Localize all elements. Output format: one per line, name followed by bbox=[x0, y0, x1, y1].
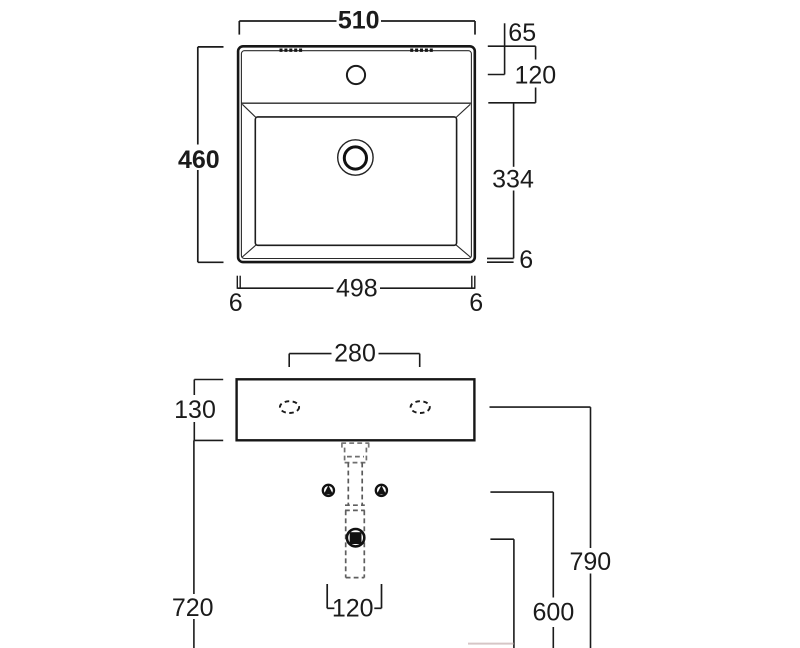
drain pipe upper (dashed) bbox=[348, 463, 362, 505]
dimension 334 (bowl depth) bbox=[492, 103, 534, 259]
svg-text:498: 498 bbox=[336, 274, 378, 302]
basin front outline bbox=[237, 379, 475, 440]
dimension 6 (right wall) bbox=[487, 246, 533, 274]
reference line at mounting holes level bbox=[490, 406, 591, 408]
mounting hole right (dashed) bbox=[411, 401, 430, 413]
dimension 510 (top width) bbox=[239, 6, 475, 34]
dimension 790 (height of rim) bbox=[569, 407, 611, 648]
drain outer circle bbox=[338, 140, 373, 175]
drain tailpiece flange (dashed) bbox=[341, 443, 369, 448]
bowl corner diagonal bottom-right bbox=[456, 245, 471, 257]
basin outer rim (top view) bbox=[238, 46, 475, 262]
hidden tap hole dashes right bbox=[410, 49, 433, 52]
svg-text:460: 460 bbox=[178, 146, 220, 174]
drain level vertical line bbox=[513, 539, 515, 648]
dimension 120 (outlet width brackets) bbox=[327, 584, 381, 622]
svg-text:334: 334 bbox=[492, 165, 534, 193]
bowl corner diagonal bottom-left bbox=[242, 245, 256, 257]
reference line at drain level bbox=[490, 538, 514, 540]
bowl corner diagonal top-left bbox=[242, 104, 256, 118]
drain pipe lower (dashed) bbox=[345, 505, 365, 577]
svg-text:600: 600 bbox=[533, 598, 575, 626]
svg-text:790: 790 bbox=[569, 548, 611, 576]
basin inner rim line bbox=[241, 51, 471, 259]
dimension 65 (faucet offset) bbox=[488, 19, 536, 74]
wall fixing symbol left (circle+triangle) bbox=[323, 485, 334, 496]
label 6 (right wall, below 498 line) bbox=[469, 289, 483, 317]
svg-text:65: 65 bbox=[508, 19, 536, 47]
mounting hole left (dashed) bbox=[280, 401, 299, 413]
hidden tap hole dashes left bbox=[280, 49, 303, 52]
dimension 460 (left depth) bbox=[178, 47, 224, 262]
svg-text:6: 6 bbox=[229, 289, 243, 317]
dimension 280 (hole spacing) bbox=[289, 340, 420, 368]
label 6 (left wall, below 498 line) bbox=[229, 289, 243, 317]
svg-text:6: 6 bbox=[469, 289, 483, 317]
drain outlet dot (circle+square) bbox=[347, 529, 364, 546]
bowl corner diagonal top-right bbox=[456, 104, 471, 118]
wall fixing symbol right (circle+triangle) bbox=[376, 485, 387, 496]
dimension 600 (height of fixing) bbox=[533, 492, 575, 648]
faint floor tick bbox=[468, 643, 514, 645]
svg-text:6: 6 bbox=[519, 246, 533, 274]
svg-text:130: 130 bbox=[174, 396, 216, 424]
svg-text:720: 720 bbox=[172, 594, 214, 622]
dimension 120 (deck depth) bbox=[488, 46, 556, 103]
faucet hole bbox=[347, 66, 365, 84]
reference line at fixing level bbox=[490, 491, 553, 493]
dimension 498 (bottom inner width) bbox=[237, 274, 474, 302]
svg-text:120: 120 bbox=[514, 61, 556, 89]
inner bowl outline bbox=[255, 117, 456, 245]
drain inner circle bbox=[344, 147, 366, 169]
svg-text:280: 280 bbox=[334, 340, 376, 368]
deck/bevel top line bbox=[241, 102, 471, 104]
svg-text:510: 510 bbox=[338, 6, 380, 34]
svg-text:120: 120 bbox=[332, 594, 374, 622]
dimension 130 (front height) bbox=[174, 380, 223, 441]
drain tailpiece neck (dashed) bbox=[345, 448, 367, 463]
dimension 720 (height to basin bottom) bbox=[172, 440, 214, 648]
